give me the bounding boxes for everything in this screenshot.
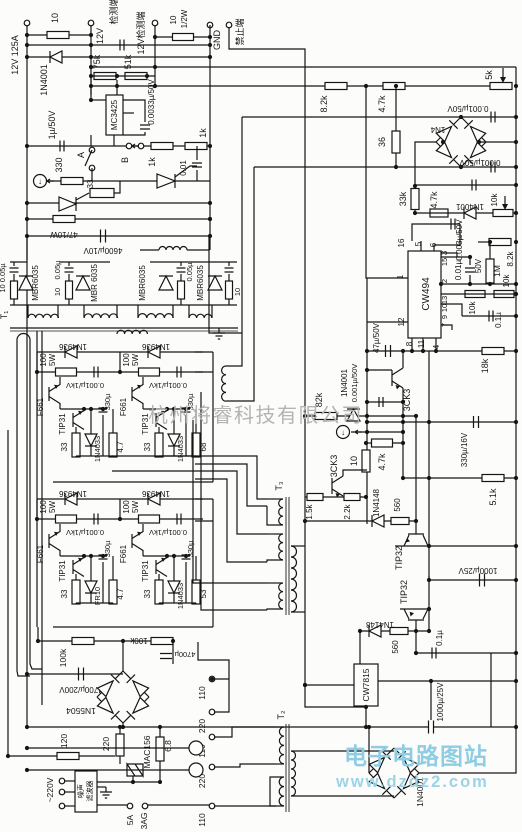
cell row extend a — [195, 351, 213, 353]
junction dot 27,727 — [25, 725, 29, 729]
potentiometer 1M — [486, 259, 494, 283]
wire x491 drop — [490, 653, 492, 727]
resistor 10 b — [362, 450, 370, 472]
resistor 560 a — [391, 518, 409, 525]
svg-text:53: 53 — [199, 589, 208, 598]
winding stub x173 — [172, 305, 174, 318]
wire pin12 left — [367, 321, 408, 323]
svg-text:13: 13 — [440, 296, 449, 304]
svg-text:1000µ/25V: 1000µ/25V — [436, 682, 445, 722]
svg-text:~220V: ~220V — [45, 777, 55, 802]
resistor 47/10W — [53, 216, 75, 223]
junction dot 443,142 — [441, 140, 445, 144]
capacitor 0.001u/50V a — [491, 112, 495, 123]
junction dot 429,546 — [427, 544, 431, 548]
svg-text:220: 220 — [101, 737, 111, 751]
junction dot 210,203 — [208, 201, 212, 205]
cell3 resistor 4.7 — [109, 580, 117, 604]
cell3 dot c — [89, 554, 93, 558]
filter terminal 1 — [59, 778, 65, 784]
wire row y580 — [429, 579, 516, 581]
wire row y756 — [8, 755, 115, 757]
svg-text:CW494: CW494 — [421, 277, 432, 311]
svg-text:10: 10 — [53, 288, 62, 296]
junction dot 160,782 — [158, 780, 162, 784]
capacitor coupling y185 — [472, 180, 476, 191]
resistor 100k b — [151, 638, 173, 645]
svg-text:A: A — [76, 152, 86, 158]
cell2 resistor 68 — [192, 433, 200, 457]
junction dot 173,641 — [171, 639, 175, 643]
svg-text:51k: 51k — [123, 54, 133, 69]
cell3 capacitor 0.001u/1kV — [94, 514, 98, 525]
junction dot 160,727 — [158, 725, 162, 729]
junction dot 367,351 — [365, 349, 369, 353]
wire pin16 up — [412, 224, 441, 241]
junction dot 516,294 — [514, 292, 518, 296]
resistor 36 — [392, 131, 400, 153]
wire x155 down — [154, 25, 156, 86]
cell4 capacitor 330u — [182, 555, 191, 559]
svg-text:T₂: T₂ — [276, 710, 286, 719]
svg-text:36: 36 — [377, 137, 387, 147]
filter t1 wire — [64, 780, 75, 782]
wire MC3425 left pins — [91, 99, 106, 101]
junction dot 431,681 — [429, 679, 433, 683]
resistor 1.5k — [307, 494, 323, 501]
svg-text:1N4001: 1N4001 — [39, 64, 49, 96]
wire switch to row — [91, 168, 93, 181]
cell4 vert third b — [195, 603, 197, 604]
wire x91 low — [90, 135, 92, 146]
cell row extend d — [195, 520, 213, 522]
cell4 capacitor 0.001u/1kV — [177, 514, 181, 525]
wire bottom bus y727 — [27, 726, 428, 728]
svg-text:47µ/50V: 47µ/50V — [372, 322, 381, 353]
cell border right lower — [212, 499, 214, 627]
capacitor 0.001u/50V b — [491, 162, 495, 173]
junction dot 367,432 — [365, 430, 369, 434]
resistor 6.8 — [156, 737, 164, 761]
fuse terminal b — [142, 803, 148, 809]
svg-text:B: B — [120, 157, 130, 163]
winding stub x189 — [188, 305, 190, 318]
svg-text:8.2k: 8.2k — [319, 95, 329, 113]
cell1 capacitor 330u — [99, 408, 108, 412]
junction dot 470,257 — [468, 255, 472, 259]
cell2 left join — [119, 352, 121, 372]
svg-text:0.001µ/1kV: 0.001µ/1kV — [149, 528, 187, 537]
junction dot 429,580 — [427, 578, 431, 582]
cell4 left join — [119, 499, 121, 519]
junction dot 210,236 — [208, 234, 212, 238]
svg-text:↓: ↓ — [341, 428, 345, 437]
svg-text:560: 560 — [393, 498, 402, 512]
wire GND bus x210 — [209, 25, 211, 250]
svg-text:1N4033: 1N4033 — [176, 436, 185, 462]
wire MC3425 stub — [116, 80, 118, 95]
wire snubber 4 — [228, 262, 230, 305]
junction dot 123,641 — [121, 639, 125, 643]
cell4 dot b — [165, 554, 169, 558]
junction dot 396,167 — [394, 165, 398, 169]
wire pin3 right — [441, 253, 457, 257]
junction dot 461,167 — [459, 165, 463, 169]
svg-text:www.dzdz2.com: www.dzdz2.com — [335, 773, 489, 791]
T2 core — [286, 724, 289, 812]
tap wire 4 — [214, 805, 276, 807]
T3 coil1 stubs — [267, 498, 283, 500]
wire rail y86 — [91, 85, 512, 87]
wire rail y185 — [415, 184, 516, 186]
cell1 dot b — [82, 407, 86, 411]
wire pin7 drop — [441, 325, 452, 330]
wire jinzhi lower — [305, 416, 366, 707]
svg-text:1.5k: 1.5k — [305, 503, 314, 519]
svg-text:33: 33 — [143, 442, 152, 451]
junction dot 403,402 — [401, 400, 405, 404]
svg-text:10: 10 — [169, 15, 178, 24]
svg-text:5W: 5W — [131, 501, 140, 513]
wire snub rail3 — [150, 261, 237, 263]
filter t2 wire — [64, 791, 75, 793]
svg-text:4700µ/200V: 4700µ/200V — [59, 685, 103, 694]
svg-text:9: 9 — [440, 315, 449, 319]
svg-text:10k: 10k — [468, 301, 477, 315]
wire 3CK3b col — [343, 470, 367, 476]
junction dot 396,86 — [394, 84, 398, 88]
junction dot 367,402 — [365, 400, 369, 404]
svg-text:1/2W: 1/2W — [180, 9, 189, 28]
wire 1000u join — [430, 681, 432, 720]
T3 primary coil 1 — [279, 499, 283, 525]
junction dot 441,284 — [439, 282, 443, 286]
svg-text:0.001µ/50V: 0.001µ/50V — [459, 158, 501, 167]
IC MC3425 box — [106, 95, 123, 135]
wire row y609 — [400, 608, 429, 610]
wire 12V top — [27, 34, 91, 36]
svg-text:4.7k: 4.7k — [429, 191, 439, 209]
T3 sec top — [291, 545, 305, 547]
cell2 dot d — [184, 407, 188, 411]
junction dot 516,580 — [514, 578, 518, 582]
capacitor 0.05u snubber 3 — [177, 268, 186, 272]
wire rail y117 — [242, 116, 516, 118]
junction dot 8,756 — [6, 754, 10, 758]
svg-text:F661: F661 — [119, 544, 128, 563]
resistor 51k — [125, 73, 147, 80]
filter terminal 3 — [59, 803, 65, 809]
wire snub rail2 — [60, 261, 110, 263]
svg-text:1k: 1k — [198, 128, 208, 138]
junction dot 91,57 — [89, 55, 93, 59]
junction dot 479,142 — [477, 140, 481, 144]
capacitor 0.001u/50V c — [379, 397, 383, 407]
capacitor sense coupling — [120, 40, 124, 51]
svg-text:1N4936: 1N4936 — [58, 489, 87, 498]
T1 primary wire right — [30, 340, 42, 669]
wire scr row y203 — [27, 202, 210, 204]
capacitor 0.1u b — [432, 648, 436, 659]
tap wire 1 — [214, 679, 229, 712]
selector plug circle 2 — [189, 763, 203, 777]
cell1 capacitor 0.001u/1kV — [94, 367, 98, 378]
junction dot 305,685 — [303, 683, 307, 687]
cell4 diode 1N4033 — [168, 581, 180, 593]
junction dot 27,674 — [25, 672, 29, 676]
svg-text:100k: 100k — [129, 636, 147, 645]
T3 coil3 stub b — [267, 609, 283, 610]
wire rail y67 — [91, 66, 516, 68]
wire row y653 — [416, 652, 516, 654]
junction dot 516,167 — [514, 165, 518, 169]
svg-text:33: 33 — [143, 589, 152, 598]
capacitor 1000u/25V b — [429, 721, 434, 734]
wire row y219 — [27, 218, 210, 220]
stair wire 2 — [195, 464, 267, 506]
svg-text:TIP31: TIP31 — [58, 560, 67, 582]
capacitor 0.0033u/50V — [140, 125, 150, 129]
wire y681 rail — [378, 680, 516, 682]
wire 75k row — [91, 75, 155, 77]
svg-text:1N4936: 1N4936 — [58, 342, 87, 351]
cell4 transistor TIP31 — [156, 558, 167, 577]
svg-text:1N4001: 1N4001 — [455, 202, 484, 211]
wire snubber rail — [26, 236, 28, 260]
winding stub x138 — [137, 305, 139, 318]
cell2 vert 33 — [158, 456, 160, 457]
svg-text:CW7815: CW7815 — [361, 668, 371, 701]
cell1 vert d2 — [90, 446, 92, 456]
wire 3CK3 emitter down — [402, 388, 404, 402]
svg-text:8.2k: 8.2k — [506, 250, 515, 266]
CW7815 bottom wire — [365, 706, 367, 727]
cell3 vert third — [112, 556, 114, 580]
wire row y224 — [441, 223, 460, 225]
cell2 capacitor 0.001u/1kV — [177, 367, 181, 378]
wire pin4 down — [435, 338, 437, 351]
resistor 1k a — [151, 143, 173, 150]
terminal 12V 125A input — [24, 20, 30, 26]
transformer T1 winding c — [138, 314, 173, 318]
junction dot 429,609 — [427, 607, 431, 611]
T2 sec bot wire — [291, 795, 394, 797]
junction dot 403,416 — [401, 414, 405, 418]
svg-text:0.1µ: 0.1µ — [494, 312, 503, 328]
junction dot 490,284 — [488, 282, 492, 286]
wire 36 top — [395, 87, 397, 131]
cell1 node row — [60, 408, 107, 410]
switch A contact top — [89, 147, 95, 153]
wire 3CK3 collector up — [402, 351, 404, 368]
svg-text:12V: 12V — [95, 28, 105, 44]
svg-text:1N4936: 1N4936 — [141, 489, 170, 498]
cell3 transistor F661 — [49, 532, 60, 551]
noise filter box — [75, 771, 97, 812]
wire 0.01 drop — [196, 146, 198, 160]
wire snubber 2 — [68, 262, 70, 305]
capacitor 1000u/25V a — [480, 574, 485, 587]
junction dot 27,748 — [25, 746, 29, 750]
junction dot 367,370 — [365, 368, 369, 372]
transistor TIP32 no.1 — [404, 534, 428, 546]
capacitor 0.05u snubber 2 — [65, 268, 74, 272]
svg-text:杭州将睿科技有限公司: 杭州将睿科技有限公司 — [148, 404, 363, 427]
left bus x8 — [7, 430, 9, 756]
meter M1 circle — [34, 175, 47, 188]
svg-text:TIP32: TIP32 — [394, 546, 404, 570]
cell row extend b — [195, 371, 213, 373]
junction dot 516,86 — [514, 84, 518, 88]
diode 1N4148 b — [369, 625, 381, 637]
cell2 vert third b — [195, 456, 197, 457]
svg-text:50V: 50V — [474, 258, 483, 273]
cell3 transistor TIP31 — [73, 558, 84, 577]
svg-text:检测端: 检测端 — [108, 0, 119, 25]
ground filter — [100, 787, 112, 798]
stair vert b — [201, 392, 267, 610]
svg-text:75k: 75k — [92, 54, 102, 69]
wire bridge1 top — [122, 641, 124, 671]
junction dot 490,242 — [488, 240, 492, 244]
capacitor 4700u/200V b — [160, 654, 172, 659]
cell2 diode 1N4936 — [148, 346, 160, 358]
cell row extend c — [195, 498, 213, 500]
wire snubber 3 — [180, 262, 182, 305]
junction dot 91,76 — [89, 74, 93, 78]
junction dot 120,727 — [118, 725, 122, 729]
junction dot 210,37 — [208, 35, 212, 39]
wire x416 576 — [428, 576, 430, 580]
wire cap c row — [367, 401, 403, 403]
junction dot 305,685 — [303, 683, 307, 687]
junction dot 305,521 — [303, 519, 307, 523]
junction dot 210,219 — [208, 217, 212, 221]
wire 0.01u leads b — [469, 275, 471, 284]
T2 primary coil 1 — [279, 727, 284, 764]
stair vert a — [193, 420, 267, 583]
svg-text:5W: 5W — [48, 354, 57, 366]
junction dot 412,351 — [410, 349, 414, 353]
junction dot 423,351 — [421, 349, 425, 353]
wire 0.01u leads — [469, 257, 471, 265]
resistor 18k — [482, 348, 504, 355]
svg-text:120: 120 — [59, 734, 69, 748]
svg-text:100: 100 — [39, 353, 48, 367]
switch A blade — [85, 150, 92, 166]
filter terminal 2 — [59, 789, 65, 795]
cell2 tip col stub — [166, 409, 168, 411]
cell2 diode row — [120, 351, 203, 353]
wire jinzhi-duan run — [229, 27, 305, 416]
junction dot 403,432 — [401, 430, 405, 434]
wire pin1 left — [366, 86, 408, 278]
junction dot 133,782 — [131, 780, 135, 784]
T1 primary hook — [17, 334, 30, 340]
junction dot 38,641 — [36, 639, 40, 643]
svg-text:1N4001: 1N4001 — [340, 368, 349, 397]
wire rail y37 — [155, 36, 210, 38]
transformer T1 winding d — [189, 314, 212, 318]
svg-text:4.7k: 4.7k — [377, 95, 387, 113]
wire right bus upper x516 — [515, 67, 517, 727]
capacitor 0.05u snubber 1 — [10, 268, 19, 272]
stair wire 1 — [112, 456, 267, 499]
cell2 dot e — [118, 370, 122, 374]
svg-text:560: 560 — [391, 640, 400, 654]
junction dot 516,142 — [514, 140, 518, 144]
svg-text:T₁: T₁ — [0, 311, 9, 320]
svg-text:330: 330 — [54, 157, 64, 172]
junction dot 415,186 — [413, 184, 417, 188]
lower block border — [53, 626, 213, 628]
capacitor 0.05u snubber 4 — [225, 268, 234, 272]
cell4 d2 top — [173, 556, 175, 581]
bridge rectifier 1N4001 d — [369, 748, 394, 773]
svg-text:T₃: T₃ — [274, 481, 284, 490]
svg-text:18k: 18k — [480, 358, 490, 373]
cell3 diode row — [37, 498, 120, 500]
cell2 diode 1N4033 — [168, 434, 180, 446]
cell3 diode 1N4936 — [65, 493, 77, 505]
svg-text:110: 110 — [197, 813, 207, 827]
terminal GND — [207, 22, 213, 28]
meter M2 arrow — [355, 430, 362, 434]
wire 6.8 bot — [159, 761, 161, 782]
junction dot 117,86 — [115, 84, 119, 88]
cell4 emitter stub — [142, 524, 144, 532]
cell1 transistor TIP31 — [73, 411, 84, 430]
cell3 emitter stub — [59, 524, 61, 532]
resistor 10 snubber 4 — [226, 281, 233, 299]
junction dot 91,67 — [89, 65, 93, 69]
resistor 1k b — [185, 143, 207, 150]
junction dot 461,117 — [459, 115, 463, 119]
T3 primary coil 2 — [279, 534, 283, 560]
cell3 dot b — [82, 554, 86, 558]
resistor 33k — [411, 189, 419, 210]
wire feedback row y351 — [367, 350, 516, 352]
cell2 res row — [120, 371, 203, 373]
junction dot 366,86 — [364, 84, 368, 88]
wire cap 0.0033 link — [123, 132, 145, 135]
T2 secondary coil — [291, 751, 296, 796]
cell1 collector stub — [59, 403, 61, 409]
resistor 8.2k b — [489, 239, 511, 246]
svg-text:0.001µ/1kV: 0.001µ/1kV — [66, 528, 104, 537]
junction dot 212,679 — [210, 677, 214, 681]
transformer T1 primary winding — [222, 366, 226, 401]
node B left — [126, 143, 132, 149]
wire 36 bottom — [395, 153, 397, 167]
svg-text:MBR6035: MBR6035 — [31, 265, 40, 301]
junction dot 516,242 — [514, 240, 518, 244]
wire 4700 row y674 — [27, 673, 123, 675]
svg-text:110: 110 — [197, 686, 207, 700]
T2 primary coil 2 — [279, 777, 284, 806]
svg-text:1000µ/25V: 1000µ/25V — [458, 566, 498, 575]
junction dot 366,497 — [364, 495, 368, 499]
resistor 120 — [57, 753, 79, 760]
junction dot 429,478 — [427, 476, 431, 480]
junction dot 27,57 — [25, 55, 29, 59]
cell4 dot d — [184, 554, 188, 558]
cell2 rail — [159, 455, 196, 457]
svg-text:10k: 10k — [490, 193, 499, 207]
wire 33 gate right — [114, 181, 120, 193]
svg-text:8: 8 — [405, 341, 414, 346]
junction dot 27,236 — [25, 234, 29, 238]
